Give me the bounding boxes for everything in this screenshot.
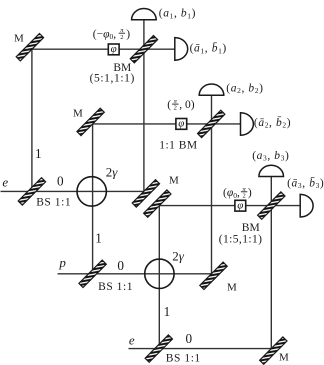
detector (a2bar,b2bar) bbox=[241, 113, 254, 136]
svg-text:(1:5,1:1): (1:5,1:1) bbox=[219, 233, 263, 245]
svg-text:M: M bbox=[14, 33, 24, 45]
svg-text:BS 1:1: BS 1:1 bbox=[166, 352, 201, 364]
svg-text:BM: BM bbox=[242, 222, 260, 234]
svg-text:M: M bbox=[279, 351, 289, 363]
svg-text:φ: φ bbox=[111, 43, 117, 55]
mirror M1 top-left bbox=[16, 34, 43, 61]
mirror M5 bottom-right bbox=[260, 337, 287, 364]
svg-text:(−φ0​,: (−φ0​, bbox=[93, 28, 116, 41]
mirror M4 bbox=[200, 262, 227, 289]
svg-text:, 0): , 0) bbox=[179, 99, 195, 111]
detector (a1,b1) bbox=[132, 9, 157, 20]
mirror M3 (center pair upper) bbox=[132, 180, 159, 207]
svg-text:e: e bbox=[2, 174, 8, 189]
svg-text:1: 1 bbox=[164, 304, 171, 319]
svg-text:2: 2 bbox=[174, 105, 177, 112]
wire p-input row bbox=[58, 273, 212, 275]
beam splitter BS3 bbox=[145, 335, 172, 362]
wire M5 up to detector a3b3 bbox=[270, 177, 272, 349]
detector (a1bar,b1bar) bbox=[175, 38, 188, 61]
svg-text:2: 2 bbox=[120, 34, 123, 41]
svg-text:2γ: 2γ bbox=[106, 164, 119, 179]
svg-text:φ: φ bbox=[237, 199, 243, 211]
svg-text:M: M bbox=[227, 282, 237, 294]
detector (a3,b3) bbox=[259, 165, 284, 176]
svg-text:0: 0 bbox=[117, 258, 124, 273]
svg-text:M: M bbox=[73, 108, 83, 120]
wire row3 to detector bbox=[159, 205, 300, 207]
node coupling circle 2-gamma (p,e) bbox=[145, 259, 174, 288]
svg-text:φ: φ bbox=[178, 118, 184, 130]
svg-text:1:1 BM: 1:1 BM bbox=[159, 140, 197, 152]
label phase (phi0, pi/2) bbox=[223, 186, 252, 200]
svg-text:e: e bbox=[129, 332, 135, 347]
wire bar2 down to BS3 bbox=[158, 206, 160, 349]
wire e-input row bbox=[1, 190, 144, 192]
svg-text:BS 1:1: BS 1:1 bbox=[36, 196, 71, 208]
svg-text:1: 1 bbox=[95, 231, 102, 246]
svg-text:p: p bbox=[58, 255, 66, 270]
detector (a3bar,b3bar) bbox=[300, 194, 313, 217]
wire M3 up to detector a1b1 bbox=[143, 20, 145, 192]
svg-text:): ) bbox=[248, 187, 252, 199]
wire BS1 up to M1 bbox=[31, 49, 33, 191]
svg-text:2γ: 2γ bbox=[172, 249, 185, 264]
svg-text:(5:1,1:1): (5:1,1:1) bbox=[90, 73, 135, 85]
node coupling circle 2-gamma (e,p) bbox=[77, 177, 106, 206]
svg-text:(φ0​,: (φ0​, bbox=[223, 187, 240, 200]
beam merger BM3 bbox=[258, 192, 285, 219]
mirror M2 bbox=[77, 108, 104, 135]
phase box phi row1 bbox=[108, 43, 119, 55]
wire bottom e-input row bbox=[129, 348, 272, 350]
svg-text:1: 1 bbox=[35, 146, 42, 161]
svg-text:0: 0 bbox=[57, 174, 64, 189]
beam merger BM2 bbox=[198, 110, 225, 137]
wire row2 M2 to detector bbox=[93, 123, 241, 125]
phase box phi row3 bbox=[235, 199, 246, 211]
svg-text:M: M bbox=[169, 174, 179, 186]
label phase (pi/2, 0) bbox=[167, 98, 194, 112]
phase box phi row2 bbox=[176, 118, 187, 130]
svg-text:2: 2 bbox=[242, 192, 245, 199]
svg-text:0: 0 bbox=[186, 331, 193, 346]
svg-text:): ) bbox=[126, 28, 130, 40]
wire BS2 up to M2 bbox=[92, 124, 94, 274]
mirror M3b (center pair lower) bbox=[144, 190, 171, 217]
detector (a2,b2) bbox=[199, 84, 224, 95]
wire M4 up to detector a2b2 bbox=[211, 95, 213, 274]
wire row1 M1 to detector bbox=[32, 48, 175, 50]
beam merger BM1 bbox=[130, 36, 157, 63]
beam splitter BS2 bbox=[79, 260, 106, 287]
beam splitter BS1 bbox=[18, 178, 45, 205]
svg-text:(: ( bbox=[167, 99, 171, 111]
label phase (-phi0, pi/2) bbox=[93, 27, 131, 41]
svg-text:BS 1:1: BS 1:1 bbox=[98, 281, 133, 293]
